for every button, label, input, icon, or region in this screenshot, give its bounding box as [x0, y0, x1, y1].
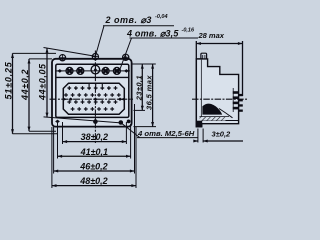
hole d3 top-left — [59, 54, 66, 61]
pins in side view left of wall — [233, 91, 239, 109]
band bottom line — [56, 76, 129, 78]
svg-text:51±0,25: 51±0,25 — [4, 61, 14, 99]
dim 3+-0.2 — [193, 129, 243, 143]
svg-text:38±0,2: 38±0,2 — [81, 132, 108, 142]
oblique extension 44_005 top — [44, 48, 96, 57]
horizontal centerline — [50, 98, 134, 100]
contact pins row 1 — [67, 84, 117, 90]
side body profile — [202, 59, 239, 124]
insert octagon — [63, 83, 124, 114]
leader 4 otv d3.5 — [120, 38, 132, 71]
screw M2.5 top-right diamond — [123, 69, 130, 73]
bottom right small screw — [127, 120, 131, 124]
ext line at band top right — [132, 63, 156, 65]
svg-text:28 max: 28 max — [198, 31, 225, 40]
svg-text:-0,04: -0,04 — [155, 14, 168, 20]
dim 36.5 line — [151, 64, 154, 127]
bottom hole center — [93, 119, 98, 124]
side flange plate — [196, 59, 201, 127]
pins tails right of wall — [239, 94, 243, 112]
dim 44+-0.05 line — [46, 48, 49, 117]
svg-text:44±0,05: 44±0,05 — [37, 63, 47, 101]
dim 28max — [196, 41, 242, 96]
svg-text:46±0,2: 46±0,2 — [79, 162, 107, 172]
svg-text:48±0,2: 48±0,2 — [79, 176, 107, 186]
dim 51 line — [11, 53, 58, 133]
mounting hole d3.5 no.1 — [65, 67, 74, 74]
side top boss — [201, 53, 207, 59]
bottom screw M2.5 left — [55, 120, 60, 124]
bottom screw M2.5 right (leader target) — [119, 120, 124, 125]
contact pins row 1 arrowheads — [68, 88, 110, 90]
key pins on centerline — [64, 98, 124, 101]
side body inner bottom line — [202, 120, 239, 122]
side centerline — [192, 98, 247, 100]
oblique extension 44_005 bottom — [44, 117, 121, 123]
svg-text:3±0,2: 3±0,2 — [212, 129, 232, 138]
dim 38 — [63, 140, 127, 143]
side body inner rear line — [232, 88, 234, 112]
cable clamp wedge (section) — [202, 104, 222, 115]
svg-text:36,5 max: 36,5 max — [145, 75, 154, 110]
mounting hole d3.5 no.4 — [112, 67, 121, 74]
hatched bottom wall — [200, 117, 226, 121]
wedge tail curve — [219, 109, 233, 118]
shell inner outline — [56, 64, 129, 117]
ext line 23 bottom — [134, 109, 146, 111]
svg-text:44±0,2: 44±0,2 — [20, 69, 30, 101]
underline M2.5 text — [137, 137, 198, 139]
dim 48 — [52, 184, 136, 187]
ext line 36.5 bottom — [134, 126, 157, 128]
contact pins row 2 — [64, 93, 121, 97]
svg-text:-0,16: -0,16 — [182, 28, 195, 34]
mounting hole d3.5 no.3 — [101, 67, 110, 74]
flange bottom section — [196, 121, 201, 127]
svg-text:4 отв. ⌀3,5: 4 отв. ⌀3,5 — [126, 28, 179, 38]
hole d3 top-center — [92, 53, 99, 60]
vertical centerline — [94, 51, 96, 144]
svg-text:4 отв. М2,5-6Н: 4 отв. М2,5-6Н — [137, 129, 195, 138]
dim 44+-0.2 line — [28, 59, 57, 131]
contact pins row 3 — [67, 100, 117, 104]
center guide socket — [91, 64, 100, 75]
svg-text:41±0,1: 41±0,1 — [80, 147, 108, 157]
leader M2.5 — [121, 123, 140, 138]
contact pins row 4 — [71, 107, 114, 111]
dim 23 line — [141, 64, 144, 110]
flange outer outline — [52, 59, 132, 127]
mounting hole d3.5 no.2 — [76, 67, 85, 74]
dim 41 — [58, 155, 131, 158]
hole top-right — [122, 54, 129, 61]
screw M2.5 top-left diamond — [56, 69, 63, 73]
svg-text:23±0,1: 23±0,1 — [134, 75, 143, 101]
boss hole lines — [202, 55, 204, 59]
svg-text:2 отв. ⌀3: 2 отв. ⌀3 — [105, 15, 152, 25]
ext lines bottom — [62, 122, 64, 144]
band slot line — [56, 70, 128, 72]
dim 46 — [54, 170, 135, 173]
leader 2 otv d3 — [95, 26, 104, 59]
